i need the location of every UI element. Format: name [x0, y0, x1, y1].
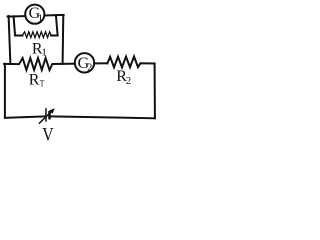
svg-text:2: 2 — [126, 75, 132, 87]
svg-text:V: V — [42, 124, 54, 143]
svg-text:2: 2 — [87, 63, 92, 74]
svg-text:1: 1 — [38, 12, 44, 24]
svg-text:1: 1 — [41, 47, 47, 59]
svg-text:T: T — [40, 79, 45, 89]
svg-text:R: R — [29, 72, 40, 89]
